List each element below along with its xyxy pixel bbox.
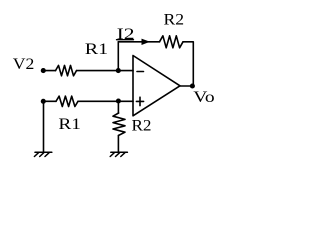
wire op-amp output [180, 85, 193, 87]
svg-text:R1: R1 [58, 116, 81, 133]
svg-text:I2: I2 [117, 26, 135, 43]
wire R1 to non-inverting input [78, 100, 133, 102]
node junction at non-inverting input [116, 98, 121, 103]
wire lower-left dot to R1 [43, 100, 56, 102]
wire feedback branch left segment [118, 41, 159, 43]
svg-text:Vo: Vo [193, 89, 214, 106]
node junction at inverting input [116, 68, 121, 73]
ground (middle) [110, 152, 127, 156]
resistor R2 (vertical) [113, 113, 125, 135]
wire lower-left dot down to ground [43, 101, 45, 152]
wire R2 down to ground [117, 135, 119, 151]
op-amp minus sign [137, 71, 144, 73]
wire R1 to inverting input [77, 70, 134, 72]
resistor R1 (bottom, horizontal) [56, 96, 78, 106]
node V2 terminal dot [41, 68, 46, 73]
wire V2 dot to R1 [43, 70, 55, 72]
op-amp plus sign [136, 97, 143, 105]
wire R2 to output corner [183, 42, 193, 86]
resistor R2 (feedback, horizontal) [160, 36, 184, 48]
node lower-left terminal dot [41, 99, 46, 104]
underline of I2 [117, 39, 134, 41]
svg-text:R1: R1 [85, 41, 108, 58]
svg-text:R2: R2 [164, 12, 185, 29]
wire junction down to R2 [117, 101, 119, 113]
arrow current direction I2 [142, 39, 151, 45]
op-amp U1 [133, 56, 180, 116]
svg-text:V2: V2 [13, 56, 35, 73]
ground (left) [34, 152, 51, 156]
resistor R1 (top, horizontal) [56, 65, 77, 75]
wire riser to feedback branch [117, 42, 119, 71]
node Vo output dot [190, 83, 195, 88]
svg-text:R2: R2 [132, 118, 152, 135]
